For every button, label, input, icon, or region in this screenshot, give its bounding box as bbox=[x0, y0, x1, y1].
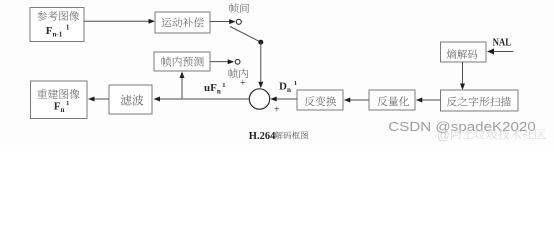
svg-text:+: + bbox=[274, 105, 280, 116]
wire: NAL input into entropy decode bbox=[492, 51, 514, 53]
caption hanzi 解码框图 bbox=[275, 131, 283, 139]
svg-text:NAL: NAL bbox=[493, 37, 512, 48]
box: entropy decode 熵解码 bbox=[441, 42, 487, 62]
switch blade wire bbox=[230, 27, 261, 43]
svg-text:Dn1: Dn1 bbox=[279, 80, 297, 94]
svg-text:H.264: H.264 bbox=[249, 131, 276, 142]
box: reference frame 参考图像 bbox=[30, 8, 84, 42]
box: reconstructed frame 重建图像 bbox=[31, 81, 88, 119]
svg-text:+: + bbox=[240, 78, 246, 89]
label 运动补偿 bbox=[161, 18, 171, 28]
wire: filter to reconstructed frame bbox=[93, 98, 110, 100]
wire: inverse quantize to inverse transform bbox=[349, 99, 370, 101]
svg-text:@: @ bbox=[437, 129, 450, 143]
junction node dot bbox=[258, 40, 263, 45]
adder summing node circle bbox=[249, 89, 269, 109]
label 滤波 bbox=[121, 95, 132, 106]
wire: branch up into intra prediction bbox=[181, 77, 183, 100]
wire: adder output to filter bbox=[158, 98, 249, 100]
wire: motion comp to inter contact bbox=[210, 21, 231, 23]
label 反量化 bbox=[377, 96, 387, 106]
label 反变换 bbox=[305, 96, 315, 106]
faint watermark hanzi bbox=[451, 129, 461, 140]
wire: ref frame to motion comp bbox=[84, 20, 150, 22]
svg-text:CSDN @spadeK2020: CSDN @spadeK2020 bbox=[388, 120, 536, 134]
wire: inverse transform to adder bbox=[275, 98, 298, 100]
label 帧内预测 bbox=[162, 57, 172, 67]
box: inverse quantize 反量化 bbox=[369, 90, 415, 110]
wire: inverse zigzag to inverse quantize bbox=[421, 99, 441, 101]
box: motion compensation 运动补偿 bbox=[155, 12, 210, 33]
label 帧间 bbox=[229, 3, 238, 13]
label 熵解码 bbox=[447, 49, 457, 59]
label 帧内 bbox=[228, 69, 237, 79]
switch contact circle (intra) bbox=[235, 59, 240, 64]
box: inverse zigzag scan 反之字形扫描 bbox=[441, 90, 519, 111]
wire: junction down to adder bbox=[260, 42, 262, 84]
label 反之字形扫描 bbox=[447, 97, 457, 107]
wire: entropy decode down to inverse zigzag bbox=[462, 62, 464, 86]
wire: intra pred to intra contact bbox=[210, 61, 229, 63]
svg-text:uFn1: uFn1 bbox=[204, 82, 226, 96]
box: inverse transform 反变换 bbox=[297, 90, 343, 110]
box: loop filter 滤波 bbox=[109, 85, 152, 114]
label 参考图像 bbox=[37, 11, 47, 21]
switch contact circle (inter) bbox=[236, 19, 241, 24]
box: intra prediction 帧内预测 bbox=[154, 52, 210, 71]
label 重建图像 bbox=[37, 89, 47, 99]
